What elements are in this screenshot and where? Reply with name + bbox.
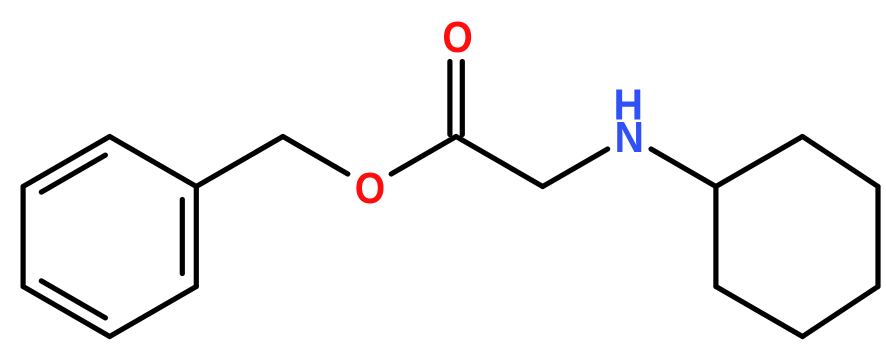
benzene inner double 1-2 — [41, 155, 105, 192]
benzene edge 4-5 — [110, 287, 197, 337]
svg-text:O: O — [442, 13, 472, 61]
benzene inner double 5-0 — [180, 200, 185, 274]
C=O line right — [460, 62, 465, 135]
bond N-cyclohexyl — [651, 149, 716, 187]
cyclohexane edge 1-2 — [716, 137, 803, 187]
bond O ester-C carbonyl — [391, 137, 456, 175]
benzene edge 0-1 — [110, 137, 197, 187]
benzene edge 2-3 — [21, 187, 26, 287]
benzene edge 5-0 — [194, 187, 199, 287]
bond CH2 alpha-N — [543, 149, 608, 187]
benzene edge 3-4 — [23, 287, 110, 337]
benzene edge 1-2 — [23, 137, 110, 187]
cyclohexane edge 2-3 — [713, 187, 718, 287]
bond CH2-O ester — [283, 137, 348, 175]
cyclohexane edge 0-1 — [803, 137, 879, 187]
svg-text:N: N — [615, 113, 645, 161]
bond ring-CH2 — [196, 137, 283, 187]
bond C carbonyl-CH2 alpha — [456, 137, 543, 187]
cyclohexane edge 5-0 — [875, 187, 880, 287]
cyclohexane edge 4-5 — [803, 287, 879, 337]
benzene inner double 3-4 — [41, 281, 105, 318]
C=O line left — [447, 62, 452, 135]
cyclohexane edge 3-4 — [716, 287, 803, 337]
svg-text:O: O — [355, 164, 385, 212]
